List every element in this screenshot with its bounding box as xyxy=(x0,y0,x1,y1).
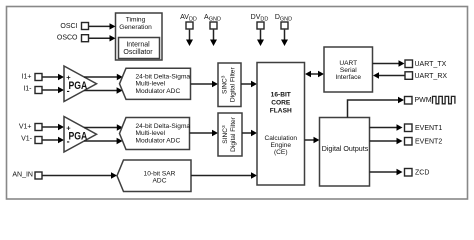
pin UART_RX xyxy=(405,72,447,80)
svg-text:Multi-level: Multi-level xyxy=(136,130,166,137)
svg-text:Engine: Engine xyxy=(270,142,291,149)
wire SINC2 to FLASH xyxy=(242,130,257,136)
svg-text:CORE: CORE xyxy=(271,99,291,106)
svg-text:10-bit SAR: 10-bit SAR xyxy=(144,170,176,177)
wire Digital Outputs to ZCD xyxy=(370,169,403,175)
wire OSCO to Timing Generation xyxy=(89,35,116,41)
block SINC2 digital filter xyxy=(218,113,242,156)
wire FLASH to UART bidirectional xyxy=(305,71,324,77)
svg-text:24-bit Delta-Sigma: 24-bit Delta-Sigma xyxy=(136,73,191,80)
svg-text:FLASH: FLASH xyxy=(270,107,292,114)
svg-text:Internal: Internal xyxy=(126,41,150,48)
pin AN_IN xyxy=(12,172,42,180)
wire SINC1 to FLASH xyxy=(241,81,257,87)
svg-text:AN_IN: AN_IN xyxy=(12,172,33,179)
pin UART_TX xyxy=(405,60,447,68)
wire ADC2 to SINC2 xyxy=(190,130,219,136)
svg-text:UART_RX: UART_RX xyxy=(415,73,448,80)
wire V1- to PGA2 xyxy=(43,137,65,143)
wire Digital Outputs to EVENT1 xyxy=(370,124,403,130)
svg-text:-: - xyxy=(67,136,70,146)
pin AGND xyxy=(204,14,221,29)
svg-text:OSCO: OSCO xyxy=(57,35,78,42)
wire DVDD down arrow xyxy=(257,30,264,46)
svg-text:Digital Filter: Digital Filter xyxy=(230,116,237,152)
wire I1- to PGA1 xyxy=(43,87,65,93)
svg-text:Interface: Interface xyxy=(335,74,361,81)
wire Digital Outputs to PWM xyxy=(348,97,405,118)
svg-text:UART: UART xyxy=(339,60,357,67)
amplifier PGA2 xyxy=(64,117,97,153)
pin EVENT2 xyxy=(405,138,443,146)
svg-text:EVENT2: EVENT2 xyxy=(415,138,442,145)
svg-text:Modulator ADC: Modulator ADC xyxy=(136,137,181,144)
wire UART to UART_TX xyxy=(373,60,405,66)
pin OSCO xyxy=(57,35,89,42)
svg-text:-: - xyxy=(67,86,70,96)
pin PWM xyxy=(405,97,432,105)
block ADC1 24-bit Delta-Sigma Multi-level Modulator ADC xyxy=(120,68,191,99)
wire FLASH to Digital Outputs xyxy=(305,137,320,143)
svg-text:I1+: I1+ xyxy=(22,74,32,81)
svg-text:Generation: Generation xyxy=(119,24,152,31)
wire V1+ to PGA2 xyxy=(43,124,65,130)
wire ADC1 to SINC1 xyxy=(191,81,219,87)
svg-text:Serial: Serial xyxy=(340,67,357,74)
wire AN_IN to SAR ADC xyxy=(43,172,118,178)
block Internal Oscillator xyxy=(119,38,160,59)
block 10-bit SAR ADC xyxy=(117,160,191,192)
block 16-BIT CORE FLASH Calculation Engine (CE) xyxy=(257,63,305,186)
wire Digital Outputs to EVENT2 xyxy=(370,138,403,144)
pin I1- xyxy=(23,86,42,94)
wire PGA2 upper out to ADC2 xyxy=(84,124,123,130)
svg-text:Oscillator: Oscillator xyxy=(123,49,153,56)
svg-text:V1-: V1- xyxy=(21,136,33,143)
wire PGA1 lower out to ADC1 xyxy=(84,87,123,93)
wire PGA2 lower out to ADC2 xyxy=(84,138,123,144)
svg-text:PWM: PWM xyxy=(415,97,432,104)
svg-text:ADC: ADC xyxy=(153,178,167,185)
pin DGND xyxy=(275,14,292,29)
amplifier PGA1 xyxy=(64,66,97,102)
svg-text:(CE): (CE) xyxy=(274,149,288,156)
pin ZCD xyxy=(405,169,430,177)
svg-text:Digital Filter: Digital Filter xyxy=(229,67,236,103)
pin V1- xyxy=(21,136,42,144)
svg-text:V1+: V1+ xyxy=(19,123,32,130)
svg-text:ZCD: ZCD xyxy=(415,169,429,176)
wire AGND down arrow xyxy=(210,30,217,46)
svg-text:UART_TX: UART_TX xyxy=(415,61,447,68)
block ADC2 24-bit Delta-Sigma Multi-level Modulator ADC xyxy=(120,118,191,150)
wire OSCI to Timing Generation xyxy=(89,23,116,29)
pin AVDD xyxy=(180,14,197,29)
wire UART_RX to UART xyxy=(373,72,405,78)
wire I1+ to PGA1 xyxy=(43,74,65,80)
svg-text:Multi-level: Multi-level xyxy=(136,80,166,87)
pin DVDD xyxy=(251,14,269,29)
pin V1+ xyxy=(19,123,42,130)
pin EVENT1 xyxy=(405,124,443,132)
svg-text:Calculation: Calculation xyxy=(264,135,297,142)
block Digital Outputs xyxy=(320,118,370,187)
wire DGND down arrow xyxy=(281,30,288,46)
block UART Serial Interface xyxy=(324,47,373,92)
pin I1+ xyxy=(22,74,42,81)
svg-text:Digital Outputs: Digital Outputs xyxy=(322,145,369,153)
PWM waveform glyph xyxy=(433,96,455,103)
svg-text:16-BIT: 16-BIT xyxy=(271,91,291,98)
svg-text:24-bit Delta-Sigma: 24-bit Delta-Sigma xyxy=(136,123,191,130)
svg-text:OSCI: OSCI xyxy=(60,23,77,30)
svg-text:I1-: I1- xyxy=(23,86,32,93)
svg-text:Modulator ADC: Modulator ADC xyxy=(136,88,181,95)
block SINC1 digital filter xyxy=(218,63,241,107)
wire PGA1 upper out to ADC1 xyxy=(84,74,123,80)
block Timing Generation xyxy=(116,13,163,60)
pin OSCI xyxy=(60,23,88,30)
wire AVDD down arrow xyxy=(186,30,193,46)
svg-text:Timing: Timing xyxy=(126,17,146,24)
chip outer border xyxy=(7,7,468,200)
svg-text:EVENT1: EVENT1 xyxy=(415,125,442,132)
wire SAR ADC to FLASH xyxy=(191,172,257,178)
